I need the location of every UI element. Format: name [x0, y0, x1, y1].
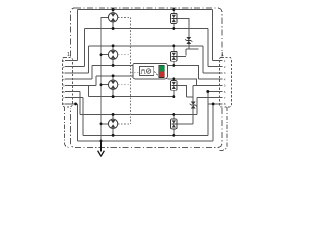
svg-text:8: 8 — [63, 102, 65, 106]
svg-text:7: 7 — [224, 96, 226, 100]
svg-text:1: 1 — [221, 52, 224, 58]
svg-text:2: 2 — [63, 65, 65, 69]
svg-text:8: 8 — [224, 102, 226, 106]
svg-text:2: 2 — [224, 65, 226, 69]
svg-text:4: 4 — [224, 77, 226, 81]
svg-text:6: 6 — [63, 90, 65, 94]
svg-text:7: 7 — [63, 96, 65, 100]
svg-text:3: 3 — [224, 71, 226, 75]
svg-text:5: 5 — [224, 84, 226, 88]
svg-text:1: 1 — [63, 59, 65, 63]
svg-text:1: 1 — [67, 52, 70, 58]
svg-text:4: 4 — [63, 77, 65, 81]
svg-text:5: 5 — [63, 84, 65, 88]
svg-text:6: 6 — [224, 90, 226, 94]
svg-text:1: 1 — [224, 59, 226, 63]
svg-text:3: 3 — [63, 71, 65, 75]
